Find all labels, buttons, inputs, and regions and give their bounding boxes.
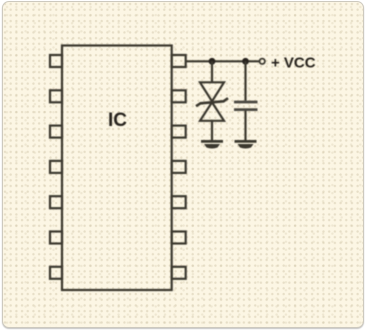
pin 7 [50,267,62,279]
terminal +VCC open circle [260,59,265,64]
pin 13 [172,232,186,244]
wire capacitor to ground [244,111,246,140]
pin 11 [172,161,186,173]
wire VCC horizontal [186,60,260,62]
svg-text:IC: IC [108,110,127,131]
pin 8 (right top, VCC pin) [172,55,186,67]
diode D1 bottom triangle [200,102,224,121]
svg-text:+ VCC: + VCC [271,55,316,72]
pin 10 [172,126,186,138]
diode D1 zener bar [196,98,228,106]
pin 2 [50,90,62,102]
capacitor C1 top plate [234,101,258,104]
node junction A [209,58,216,65]
capacitor C1 bottom plate [234,108,258,111]
pin 6 [50,232,62,244]
pin 1 (left row pin A) [50,55,62,67]
IC body [62,46,172,291]
ground GND2 pad [238,144,254,149]
wire diode to ground [211,121,213,140]
ground GND1 pad [204,144,220,149]
ground GND1 bar [201,140,223,143]
pin 14 [172,267,186,279]
pin 4 [50,161,62,173]
wire junction A down to diode [211,61,213,82]
node junction B [242,58,249,65]
wire junction B down to capacitor [244,61,246,100]
pin 3 [50,126,62,138]
pin 9 [172,90,186,102]
ground GND2 bar [235,140,257,143]
pin 5 [50,196,62,208]
diode D1 bidirectional TVS top triangle [200,82,224,101]
pin 12 [172,196,186,208]
